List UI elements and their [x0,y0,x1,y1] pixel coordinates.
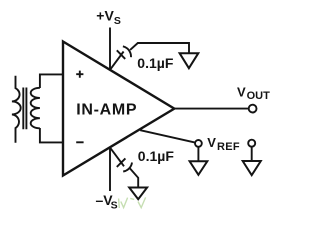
capacitor C2 curved plate [123,163,132,172]
terminal VOUT [249,105,257,113]
wire output-common stub [251,147,253,161]
transformer T1 secondary winding [31,88,40,129]
terminal VREF [195,140,202,147]
svg-text:S: S [111,199,118,211]
wire VREF from node on lower edge [140,130,195,142]
in-amp U1 triangle [63,42,174,176]
wire C2 to ground [130,168,138,187]
capacitor C1 straight plate [117,50,125,59]
wire C1 to ground [130,43,189,53]
svg-text:REF: REF [217,141,240,153]
capacitor C2 lead from node J2 [110,148,124,167]
ground (below output common) [243,161,261,175]
capacitor C1 lead from node J1 [110,52,124,70]
wire secondary top to + input [40,74,63,88]
terminal output common [248,140,255,147]
svg-text:V: V [207,135,216,150]
ground (below VREF) [190,161,208,175]
svg-text:0.1µF: 0.1µF [138,148,175,164]
capacitor C1 curved plate [123,46,131,57]
svg-text:V: V [237,85,246,100]
svg-text:0.1µF: 0.1µF [137,55,174,71]
wire secondary bottom to - input [40,128,63,142]
wire VREF to ground [197,147,199,161]
svg-text:S: S [114,15,121,27]
minus input marker [76,141,83,143]
svg-text:OUT: OUT [247,90,271,102]
plus input marker [76,71,83,78]
transformer T1 core [23,88,26,130]
svg-text:+V: +V [96,8,114,24]
watermark green marks [119,197,146,208]
svg-text:IN-AMP: IN-AMP [76,102,137,119]
capacitor C2 straight plate [117,158,126,167]
ground (below C2) [129,188,147,200]
wire +VS supply [109,28,111,70]
wire -VS supply [109,148,111,191]
transformer T1 primary winding [12,76,21,143]
ground (top right) [180,53,199,68]
wire VOUT output [174,108,248,110]
